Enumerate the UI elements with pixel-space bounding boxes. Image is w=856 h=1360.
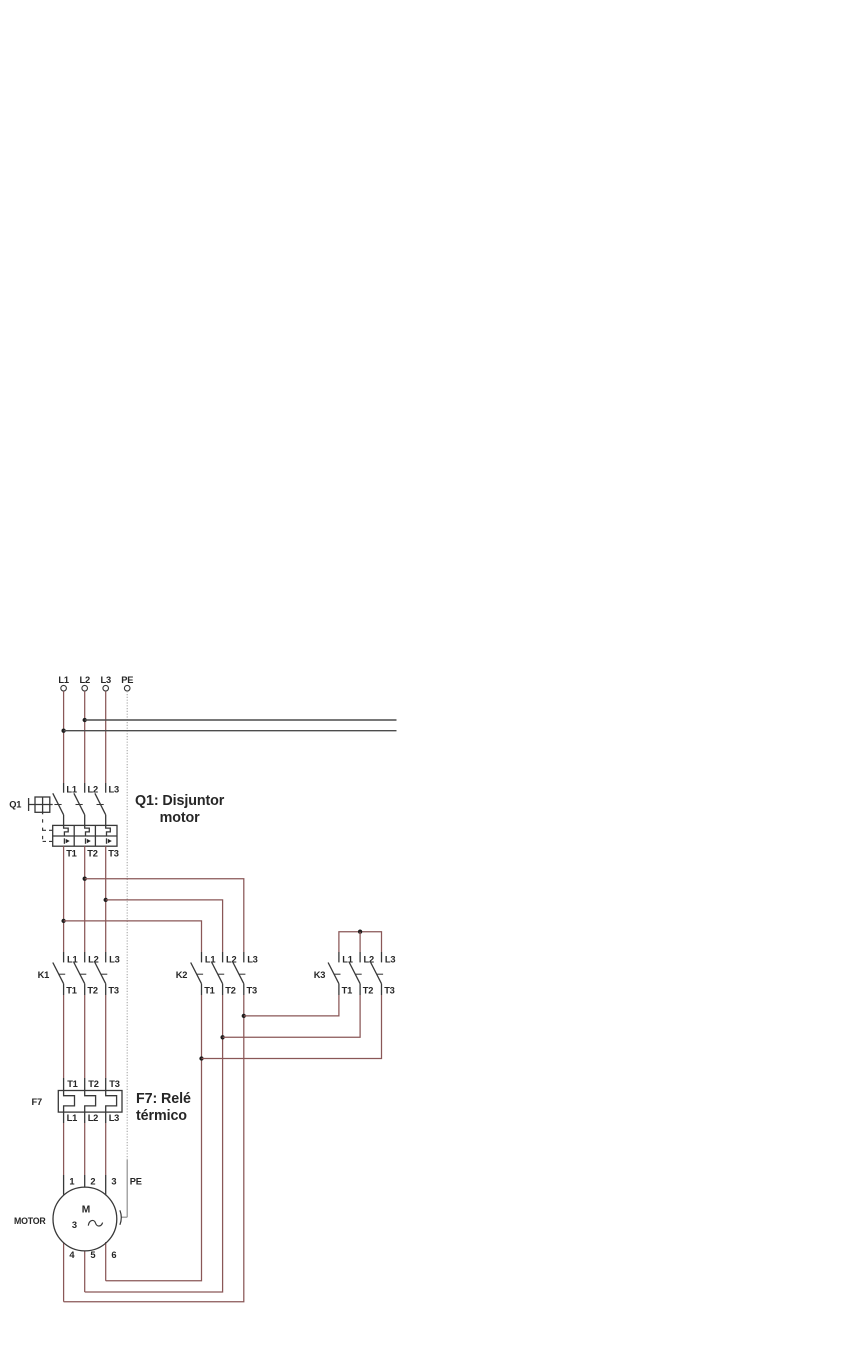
svg-text:K1: K1 [38,970,50,980]
contactor K1 pole 1 contact [53,952,65,995]
wire K3 T2 link [223,995,361,1037]
svg-text:T3: T3 [247,986,257,996]
svg-text:T3: T3 [108,848,118,858]
svg-text:MOTOR: MOTOR [14,1216,46,1226]
motor pin 2 [84,1175,86,1188]
svg-text:L2: L2 [88,954,98,964]
svg-text:F7: F7 [32,1097,42,1107]
svg-text:L1: L1 [66,784,76,794]
wire Q1 T1 to K1 L1 [63,846,65,952]
breaker Q1 pole 2 contact [74,783,85,825]
wire branch T3 to K2 L2 [106,900,223,952]
terminal L3 [100,675,110,691]
svg-text:5: 5 [90,1250,95,1260]
svg-text:L1: L1 [67,1113,77,1123]
svg-text:4: 4 [69,1250,75,1260]
wire L2 feed to control circuit [85,719,397,721]
svg-text:K3: K3 [314,970,326,980]
svg-text:T1: T1 [204,986,214,996]
node L1 feed junction [61,729,65,733]
svg-text:K2: K2 [176,970,188,980]
svg-text:L3: L3 [247,954,257,964]
terminal L2 [79,675,89,691]
svg-text:L2: L2 [88,1113,98,1123]
wire PE lower segment [126,1160,128,1217]
relay F7 pole 3 thermal element [106,1091,117,1113]
wire F7 L3 to motor 3 [105,1123,107,1175]
node T3 branch junction [104,898,108,902]
svg-text:1: 1 [69,1177,74,1187]
svg-text:T1: T1 [342,986,352,996]
wire K3 star bridge bus [339,932,382,952]
svg-text:M: M [82,1205,90,1216]
svg-text:L2: L2 [364,954,374,964]
svg-text:T2: T2 [225,986,235,996]
svg-text:T2: T2 [87,986,97,996]
svg-text:L2: L2 [88,784,98,794]
wire K1 T2 to F7 T2 [84,995,86,1078]
wire L3 terminal to Q1 [105,691,107,783]
svg-text:T2: T2 [88,1079,98,1089]
relay F7 box [58,1091,122,1113]
relay F7 pole 1 thermal element [64,1091,75,1113]
wire motor 4 drop [63,1243,65,1302]
contactor K2 pole 2 contact [212,952,224,995]
wire branch T1 to K2 L1 [64,921,202,952]
contactor K3 pole 2 contact [349,952,361,995]
breaker Q1 pole 3 magnetic element [107,838,112,844]
relay F7 pole 1 pin bottom [63,1112,65,1123]
breaker Q1 pole 1 contact [53,783,64,825]
svg-text:motor: motor [160,810,201,826]
svg-text:T3: T3 [109,1079,119,1089]
wire F7 L2 to motor 2 [84,1123,86,1175]
breaker Q1 pole 2 thermal element [85,825,90,836]
node K2 T1 / K3 T3 junction [199,1056,203,1060]
wire Q1 T3 to K1 L3 [105,846,107,952]
breaker Q1 pole 3 contact [95,783,106,825]
svg-text:térmico: térmico [136,1108,187,1124]
terminal PE [121,675,133,691]
node K3 star bridge junction [358,930,362,934]
svg-text:Q1: Disjuntor: Q1: Disjuntor [135,793,225,809]
node K2 T3 / K3 T1 junction [242,1014,246,1018]
wire K1 T1 to F7 T1 [63,995,65,1078]
wire L2 terminal to Q1 [84,691,86,783]
svg-text:T2: T2 [87,848,97,858]
wire branch T2 to K2 L3 [85,879,244,952]
svg-text:T2: T2 [363,986,373,996]
relay F7 pole 2 pin top [84,1078,86,1091]
node T1 branch junction [61,919,65,923]
motor M1 circle [53,1187,117,1251]
breaker Q1 actuator [29,797,53,814]
svg-text:T3: T3 [384,986,394,996]
wire K2 T3 riser to motor 4 [64,995,244,1302]
svg-text:L2: L2 [79,675,89,685]
breaker Q1 pole 1 thermal element [64,825,69,836]
node L2 feed junction [83,718,87,722]
relay F7 pole 3 pin top [105,1078,107,1091]
breaker Q1 pole 3 thermal element [106,825,111,836]
svg-text:F7: Relé: F7: Relé [136,1091,191,1107]
wire L1 feed to control circuit [64,730,397,732]
contactor K3 pole 1 contact [328,952,340,995]
wire motor 5 drop [84,1251,86,1292]
terminal L1 [58,675,68,691]
svg-text:T1: T1 [66,986,76,996]
svg-text:Q1: Q1 [9,799,21,809]
wire L1 terminal to Q1 [63,691,65,783]
contactor K2 pole 3 contact [233,952,245,995]
label F7: Rele termico [136,1091,191,1124]
svg-text:L3: L3 [109,784,119,794]
breaker Q1 pole 2 magnetic element [86,838,91,844]
wire K1 T3 to F7 T3 [105,995,107,1078]
node K2 T2 / K3 T2 junction [220,1035,224,1039]
wire F7 L1 to motor 1 [63,1123,65,1175]
svg-text:L3: L3 [109,1113,119,1123]
relay F7 pole 2 pin bottom [84,1112,86,1123]
relay F7 pole 3 pin bottom [105,1112,107,1123]
svg-text:L3: L3 [109,954,119,964]
svg-text:3: 3 [72,1220,77,1230]
wire K3 L2 stub [359,932,361,952]
svg-text:T1: T1 [66,848,76,858]
wire K2 T1 riser to motor 6 [106,995,202,1281]
svg-text:L1: L1 [205,954,215,964]
svg-text:6: 6 [111,1250,116,1260]
breaker Q1 trip unit box [53,825,117,846]
svg-text:L2: L2 [226,954,236,964]
wire K2 T2 riser to motor 5 [85,995,223,1292]
contactor K2 pole 1 contact [191,952,203,995]
svg-text:PE: PE [130,1177,142,1187]
breaker Q1 linkage dashed [43,814,53,841]
wire PE vertical dotted [126,691,128,1160]
motor PE connection [120,1210,127,1225]
wire K3 T1 link [244,995,339,1016]
label Q1: Disjuntor motor [135,793,225,826]
svg-text:L1: L1 [58,675,68,685]
svg-text:L3: L3 [385,954,395,964]
motor pin 1 [63,1175,65,1195]
svg-text:PE: PE [121,675,133,685]
relay F7 pole 2 thermal element [85,1091,96,1113]
node T2 branch junction [83,877,87,881]
relay F7 pole 1 pin top [63,1078,65,1091]
wire K3 T3 link [202,995,382,1059]
wire motor 6 drop [105,1242,107,1281]
breaker Q1 pole 1 magnetic element [64,838,69,844]
svg-text:L1: L1 [67,954,77,964]
contactor K3 pole 3 contact [371,952,383,995]
svg-text:L3: L3 [100,675,110,685]
motor pin 3 [105,1175,107,1195]
svg-text:T3: T3 [108,986,118,996]
svg-text:T1: T1 [67,1079,77,1089]
motor sine symbol [88,1220,102,1226]
contactor K1 pole 2 contact [74,952,86,995]
wire Q1 T2 to K1 L2 [84,846,86,952]
svg-text:L1: L1 [342,954,352,964]
svg-text:3: 3 [111,1177,116,1187]
svg-text:2: 2 [90,1177,95,1187]
contactor K1 pole 3 contact [95,952,107,995]
